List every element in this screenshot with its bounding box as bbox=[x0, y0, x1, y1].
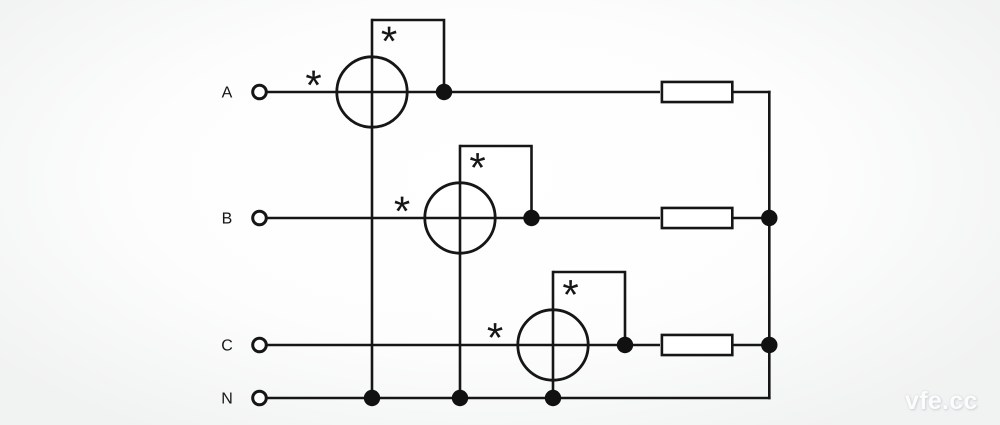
terminal C bbox=[253, 338, 267, 352]
resistor load B bbox=[662, 208, 732, 228]
svg-text:A: A bbox=[222, 85, 233, 102]
wire line A bbox=[267, 91, 661, 94]
wire W2 voltage link bbox=[460, 146, 532, 218]
junction rail line C bbox=[761, 337, 777, 353]
wattmeter W2 bbox=[425, 183, 495, 253]
svg-text:*: * bbox=[487, 314, 503, 361]
wire line C bbox=[267, 344, 661, 347]
svg-text:*: * bbox=[469, 144, 485, 191]
wattmeter W1 bbox=[337, 57, 407, 127]
wire W1 voltage link bbox=[372, 20, 444, 92]
junction W2 voltage tap on line B bbox=[523, 210, 539, 226]
resistor load C bbox=[662, 335, 732, 355]
terminal N bbox=[253, 391, 267, 405]
svg-text:N: N bbox=[221, 391, 233, 408]
watermark vfe.cc bbox=[905, 387, 978, 416]
svg-text:*: * bbox=[381, 18, 397, 65]
svg-text:B: B bbox=[222, 211, 233, 228]
junction W1 voltage tap on line A bbox=[436, 84, 452, 100]
terminal B bbox=[253, 211, 267, 225]
wire resistor A to rail bbox=[733, 91, 771, 94]
wire W1 voltage branch vertical bbox=[371, 19, 374, 398]
wire W3 voltage link bbox=[553, 272, 625, 345]
wire line N bbox=[267, 397, 771, 400]
wire right rail bbox=[768, 91, 771, 400]
wire line B bbox=[267, 217, 661, 220]
terminal A bbox=[253, 85, 267, 99]
svg-text:*: * bbox=[394, 188, 410, 235]
resistor load A bbox=[662, 82, 732, 102]
svg-text:*: * bbox=[562, 271, 578, 318]
svg-text:C: C bbox=[221, 338, 233, 355]
wire resistor B to rail bbox=[733, 217, 771, 220]
wattmeter W3 bbox=[518, 310, 588, 380]
junction W2 on N bbox=[452, 390, 468, 406]
junction W1 on N bbox=[364, 390, 380, 406]
junction rail line B bbox=[761, 210, 777, 226]
wire W3 voltage branch vertical bbox=[552, 271, 555, 398]
wire W2 voltage branch vertical bbox=[459, 145, 462, 398]
junction W3 voltage tap on line C bbox=[617, 337, 633, 353]
svg-text:*: * bbox=[305, 62, 321, 109]
wire resistor C to rail bbox=[733, 344, 771, 347]
junction W3 on N bbox=[545, 390, 561, 406]
